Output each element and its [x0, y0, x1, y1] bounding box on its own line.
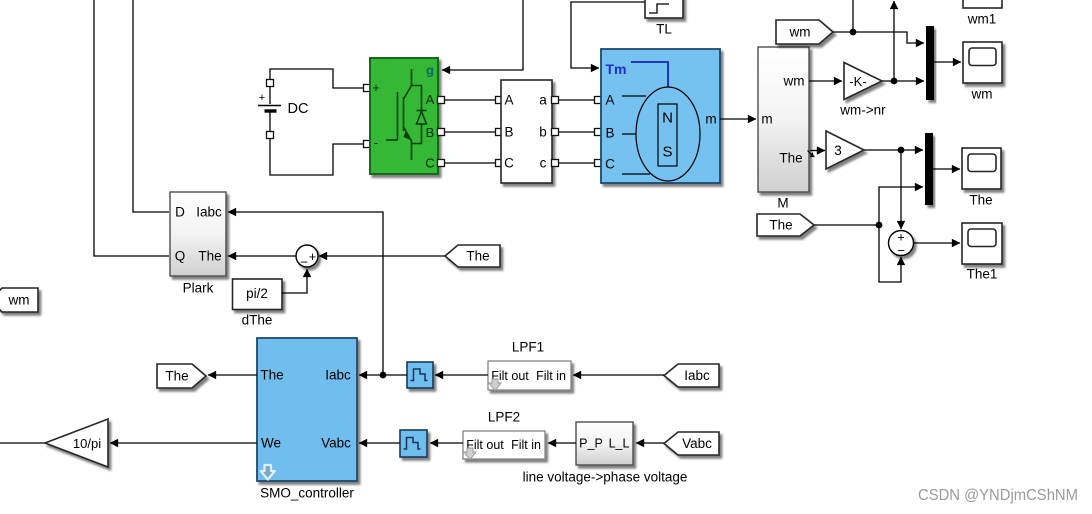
- svg-text:TL: TL: [656, 22, 672, 37]
- wire M wm to gain: [809, 80, 842, 82]
- wire SMO We to 10/pi: [110, 442, 257, 444]
- svg-text:C: C: [605, 157, 615, 172]
- wire Q input vertical: [94, 0, 169, 256]
- wire mux2 to scope The: [933, 168, 960, 170]
- mux2: [925, 133, 933, 205]
- svg-text:L_L: L_L: [609, 437, 630, 451]
- wire LPF2 to SMO Vabc: [359, 442, 400, 444]
- demux block M: [758, 47, 809, 192]
- goto tag wm top: [776, 20, 833, 44]
- measurement block ABC/abc: [501, 80, 552, 183]
- wire SMO The to tag: [208, 374, 257, 376]
- from tag Vabc: [664, 432, 719, 455]
- wire The tag to sum1: [319, 255, 445, 257]
- svg-text:N: N: [662, 110, 673, 127]
- Filt1 badge: [489, 379, 501, 391]
- wire sum2 to scope The1: [914, 242, 961, 244]
- motor magnet rect: [658, 104, 677, 166]
- port square inverter -: [364, 141, 371, 148]
- source TL: [645, 0, 683, 18]
- svg-text:Tm: Tm: [606, 61, 627, 77]
- wire Iabc feedback vertical: [228, 212, 383, 375]
- scope The: [962, 148, 1001, 189]
- from tag wm left edge: [0, 288, 38, 312]
- goto tag The right: [757, 214, 814, 236]
- svg-text:m: m: [761, 112, 772, 127]
- port squares motor left: [595, 97, 602, 167]
- wire Filt1 to LPF1: [435, 374, 488, 376]
- motor block PMSM: [601, 49, 720, 183]
- block pi/2: [233, 279, 283, 310]
- svg-text:g: g: [426, 63, 434, 78]
- svg-text:B: B: [605, 126, 614, 141]
- wire abc b to motor B: [555, 131, 598, 133]
- Filt2 badge: [464, 448, 476, 460]
- svg-text:wm1: wm1: [967, 12, 997, 27]
- wire branch down to sum2: [879, 225, 901, 282]
- from tag The mid: [445, 245, 500, 267]
- svg-text:wm: wm: [8, 293, 30, 308]
- svg-text:The: The: [779, 151, 802, 166]
- svg-text:−: −: [300, 255, 308, 270]
- svg-text:DC: DC: [288, 101, 309, 117]
- wire The tag to junction: [814, 224, 879, 226]
- wire abc c to motor C: [555, 162, 598, 164]
- svg-text:Filt in: Filt in: [536, 369, 566, 383]
- svg-text:3: 3: [834, 143, 842, 158]
- svg-text:line voltage->phase voltage: line voltage->phase voltage: [523, 470, 688, 485]
- svg-text:SMO_controller: SMO_controller: [260, 486, 354, 501]
- wire Filt2 to LPF2: [430, 442, 463, 444]
- wire D input vertical: [133, 0, 169, 212]
- svg-text:wm: wm: [789, 25, 811, 40]
- svg-text:B: B: [504, 125, 513, 140]
- svg-text:Vabc: Vabc: [682, 436, 712, 451]
- wire M The to gain 3: [810, 150, 825, 152]
- motor winding stubs: [622, 96, 650, 174]
- junction wm branch: [850, 29, 857, 36]
- wire inverter A to abc A: [441, 99, 499, 101]
- svg-text:A: A: [504, 93, 513, 108]
- wire wm tag to mux1: [833, 32, 924, 43]
- goto tag The lower left: [157, 364, 206, 388]
- svg-text:The: The: [165, 369, 188, 384]
- svg-text:Iabc: Iabc: [325, 368, 351, 383]
- wire mux1 to scope wm: [934, 61, 961, 63]
- wire inverter B to abc B: [441, 131, 499, 133]
- wire inverter C to abc C: [441, 162, 499, 164]
- wire wm tag branch up: [852, 0, 854, 32]
- svg-text:+: +: [372, 81, 379, 95]
- block Plark: [170, 192, 226, 276]
- svg-text:wm: wm: [971, 87, 993, 102]
- wire LPF1 to SMO Iabc: [359, 374, 407, 376]
- svg-text:The: The: [466, 249, 489, 264]
- svg-text:B: B: [426, 125, 435, 140]
- block SMO_controller: [257, 338, 357, 481]
- svg-text:Iabc: Iabc: [684, 368, 710, 383]
- wire P_P to Filt2: [548, 442, 576, 444]
- inverter emitter arrowhead: [404, 132, 412, 141]
- svg-text:c: c: [540, 156, 547, 171]
- svg-text:Plark: Plark: [183, 281, 214, 296]
- wire gain to mux1: [882, 80, 924, 82]
- svg-text:A: A: [426, 92, 435, 107]
- scope The1: [962, 223, 1002, 264]
- svg-text:10/pi: 10/pi: [73, 436, 101, 451]
- wire DC+ to inverter +: [270, 69, 364, 88]
- svg-text:The: The: [260, 368, 283, 383]
- svg-text:LPF1: LPF1: [512, 340, 544, 355]
- port squares inverter outputs: [438, 97, 445, 167]
- svg-text:Filt in: Filt in: [511, 438, 541, 452]
- junction The branch: [876, 222, 883, 229]
- port stub zigzag at M The: [810, 156, 815, 158]
- svg-text:We: We: [261, 436, 281, 451]
- SMO link badge arrow: [261, 465, 275, 480]
- wire pi/2 to sum1: [282, 269, 307, 293]
- gain wm->nr: [844, 63, 882, 100]
- block P_P L_L: [576, 422, 633, 465]
- svg-text:dThe: dThe: [242, 313, 273, 328]
- svg-text:−: −: [897, 243, 905, 258]
- svg-text:Vabc: Vabc: [321, 436, 351, 451]
- wire TL to motor Tm: [571, 2, 645, 68]
- svg-text:S: S: [662, 144, 672, 161]
- wire 10/pi output: [0, 442, 45, 444]
- wire branch up to mux2: [879, 187, 923, 225]
- port squares abc right: [552, 97, 559, 167]
- junction Iabc feedback: [380, 372, 387, 379]
- svg-text:C: C: [425, 156, 434, 171]
- wire Vabc tag to P_P: [636, 442, 664, 444]
- wire sum1 to Plark The: [228, 255, 296, 257]
- wire Iabc tag to Filt1: [573, 374, 664, 376]
- port square DC+: [267, 80, 274, 87]
- block LPF2: [400, 430, 427, 457]
- junction gain output: [891, 78, 898, 85]
- inverter IGBT/diode glyph: [386, 69, 427, 160]
- svg-text:m: m: [705, 112, 716, 127]
- svg-text:The: The: [769, 218, 792, 233]
- svg-text:A: A: [605, 93, 614, 108]
- svg-text:P_P: P_P: [579, 437, 603, 451]
- svg-text:The: The: [969, 193, 992, 208]
- svg-text:The1: The1: [967, 267, 998, 282]
- port squares abc left: [496, 97, 503, 167]
- from tag Iabc: [664, 364, 719, 387]
- block LPF1: [407, 362, 433, 388]
- svg-text:M: M: [777, 196, 788, 211]
- svg-text:D: D: [175, 205, 185, 220]
- wire gain 3 to mux2: [864, 149, 923, 151]
- motor rotor ellipse: [636, 87, 700, 181]
- svg-text:b: b: [539, 125, 547, 140]
- wire branch down to sum2: [900, 150, 902, 229]
- svg-text:a: a: [539, 93, 547, 108]
- svg-text:wm: wm: [783, 74, 805, 89]
- junction gain3 output: [898, 147, 905, 154]
- svg-text:-K-: -K-: [849, 74, 866, 89]
- svg-text:+: +: [309, 250, 316, 264]
- svg-text:pi/2: pi/2: [246, 286, 268, 301]
- gain 3: [826, 131, 864, 169]
- wire motor m to M: [720, 118, 756, 120]
- svg-text:LPF2: LPF2: [488, 410, 520, 425]
- svg-text:CSDN @YNDjmCShNM: CSDN @YNDjmCShNM: [918, 487, 1078, 504]
- block Filt1: [488, 361, 571, 390]
- svg-text:+: +: [259, 92, 265, 104]
- svg-text:Q: Q: [175, 249, 186, 264]
- wire abc a to motor A: [555, 99, 598, 101]
- block Filt2: [463, 431, 545, 459]
- scope wm: [963, 42, 1002, 83]
- wire DC- to inverter -: [270, 135, 364, 175]
- sum1: [296, 245, 318, 267]
- mux1: [926, 26, 934, 100]
- scope wm1 partial: [963, 0, 1002, 8]
- inverter block (IGBT bridge): [370, 58, 438, 174]
- port square inverter +: [364, 85, 371, 92]
- motor Tm blue wire: [631, 62, 668, 87]
- svg-text:The: The: [198, 249, 221, 264]
- port square DC-: [267, 132, 274, 139]
- source DC battery: [258, 86, 308, 132]
- wire branch up arrow: [893, 1, 895, 81]
- wire gate signal to inverter g: [442, 0, 523, 70]
- svg-text:C: C: [504, 156, 514, 171]
- svg-text:-: -: [374, 136, 378, 150]
- sum2: [889, 231, 914, 256]
- svg-text:wm->nr: wm->nr: [839, 103, 886, 118]
- svg-text:Iabc: Iabc: [196, 205, 222, 220]
- gain 10/pi: [45, 419, 108, 467]
